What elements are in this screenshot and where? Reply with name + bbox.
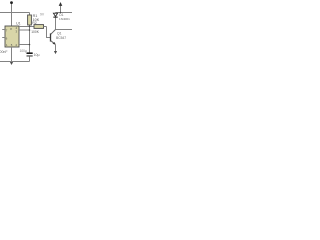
ground arrow below rail: [10, 62, 13, 65]
svg-text:100µ: 100µ: [20, 49, 27, 53]
wire: top-right rail: [56, 12, 73, 14]
capacitor C1 bottom plate: [27, 55, 33, 56]
wire: collector rail to right edge: [56, 29, 73, 31]
svg-text:1N4001: 1N4001: [59, 17, 70, 21]
wire: diode branch down to collector node: [55, 13, 57, 30]
svg-text:R2: R2: [32, 21, 37, 25]
svg-text:9V: 9V: [40, 13, 45, 17]
wire: U1 right pin to C1 top junction: [19, 44, 30, 46]
svg-text:BC547: BC547: [56, 36, 66, 40]
resistor R2 body: [34, 25, 44, 29]
node A (junction dot, top-left): [10, 1, 13, 4]
node B (junction R2 tap): [29, 26, 31, 28]
emitter continuation arrow (down): [54, 51, 57, 54]
transistor Q1 base bar: [50, 33, 52, 41]
wire: U1 right pin to R1 bottom junction: [19, 29, 30, 31]
wire: R2 right lead: [44, 26, 47, 28]
wire: R1/C1 vertical branch: [29, 13, 31, 53]
wire: drop from R2 to Q1 base: [47, 27, 51, 38]
transistor Q1 emitter diagonal with arrow: [51, 41, 56, 45]
node E (junction supply/rail): [60, 12, 62, 14]
svg-text:100K: 100K: [31, 30, 40, 34]
transistor Q1 collector diagonal: [51, 30, 56, 35]
resistor R1 body: [28, 15, 32, 25]
wire: U1 bottom pin to ground rail: [11, 47, 13, 62]
wire: emitter lead down: [55, 45, 57, 52]
pin stub: U1 left pin upper: [2, 29, 5, 31]
node C (junction pin wire): [29, 29, 31, 31]
wire: bottom ground rail: [0, 61, 30, 63]
supply arrow (up) top-right: [60, 6, 62, 13]
wire: top-left supply rail: [0, 12, 30, 14]
diode D1 symbol: [53, 13, 57, 16]
pin stub: U1 left pin lower: [2, 37, 5, 39]
wire: C1 bottom lead: [29, 57, 31, 62]
wire: U1 right pin to R2 left lead: [19, 26, 34, 28]
svg-text:10µ: 10µ: [34, 53, 40, 57]
IC U1 body: [5, 26, 19, 47]
capacitor C1 top plate: [27, 52, 33, 54]
pin numbers inside U1: [6, 26, 18, 47]
wire: vertical from top node to U1 top pin: [11, 3, 13, 27]
node D (junction C1 top): [29, 44, 31, 46]
svg-text:00nF: 00nF: [0, 50, 7, 54]
